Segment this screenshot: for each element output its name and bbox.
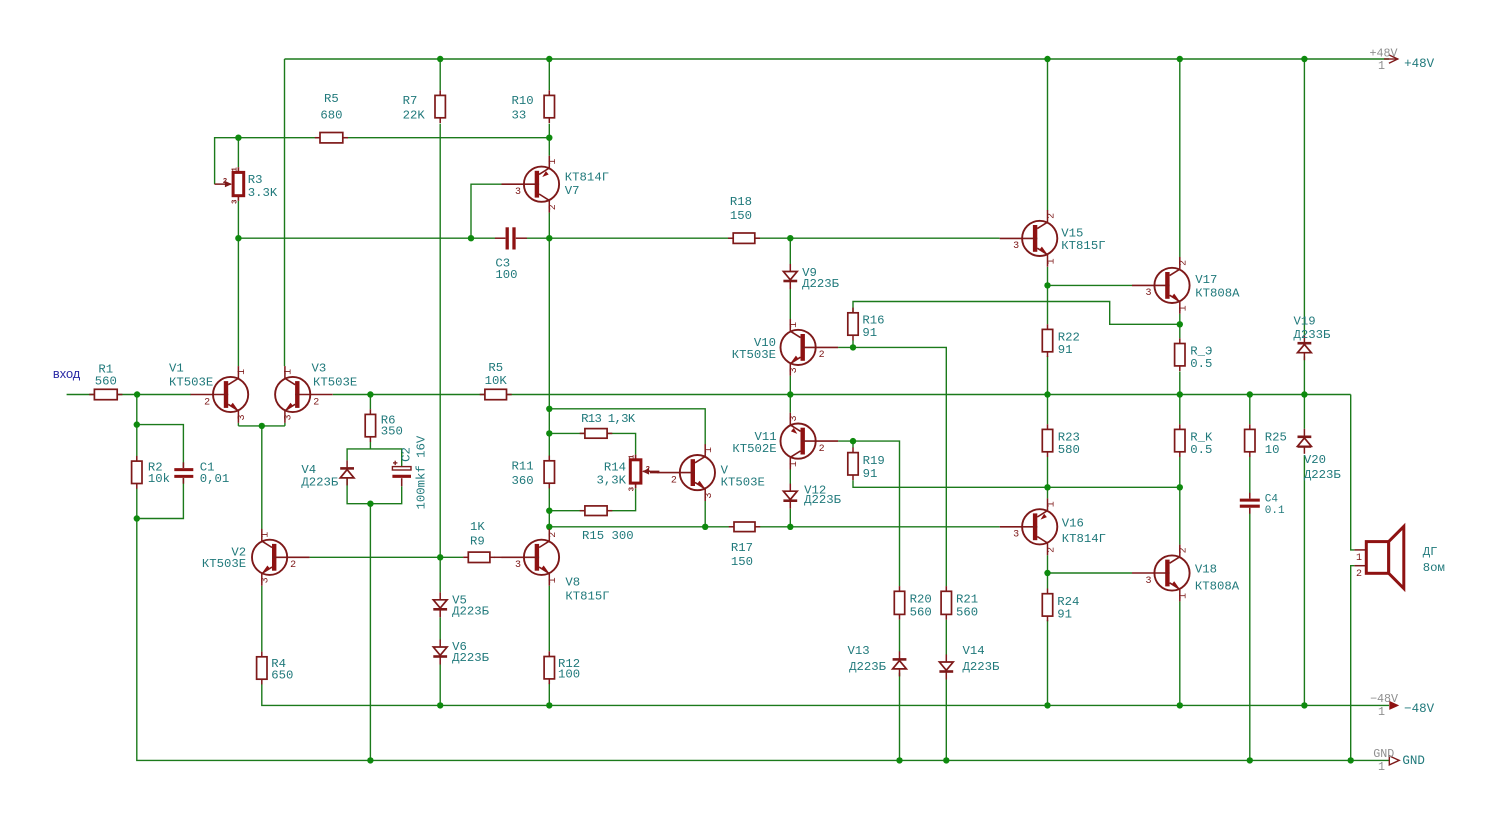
wire R14 wiper to V base	[650, 472, 659, 474]
svg-text:150: 150	[730, 209, 752, 223]
svg-text:1: 1	[1378, 59, 1385, 73]
wire R15 to R14 bottom	[608, 488, 636, 510]
svg-text:91: 91	[863, 467, 878, 481]
wire V13 column	[899, 620, 901, 652]
wire emitter join V1-V3	[238, 425, 285, 427]
junction	[546, 524, 552, 530]
svg-text:вход: вход	[53, 366, 81, 381]
svg-text:R21: R21	[956, 592, 978, 606]
junction	[943, 757, 949, 763]
wire R11 bottom to junctions	[548, 483, 550, 529]
svg-text:2: 2	[819, 350, 825, 361]
svg-text:2: 2	[819, 444, 825, 455]
svg-text:V16: V16	[1062, 517, 1084, 531]
diode V9 D223B	[783, 272, 797, 280]
svg-text:2: 2	[548, 204, 559, 210]
diode V20 D223B	[1298, 438, 1312, 446]
wire R12 bottom to -48V	[548, 683, 550, 706]
resistor R20	[899, 586, 901, 591]
transistor V1 KT503E	[213, 377, 248, 412]
junction	[702, 524, 708, 530]
junction	[1044, 391, 1050, 397]
svg-text:3: 3	[1145, 288, 1151, 299]
wire V7 collector	[548, 138, 550, 156]
svg-text:КТ808А: КТ808А	[1195, 580, 1240, 594]
svg-text:3: 3	[237, 414, 248, 420]
wire V16 collector pin	[1047, 487, 1049, 498]
wire row y409 to V pin1	[549, 409, 705, 445]
svg-text:22K: 22K	[403, 108, 426, 122]
svg-text:R18: R18	[730, 195, 752, 209]
junction	[1301, 56, 1307, 62]
wire V15 collector to rail	[1047, 59, 1049, 210]
junction	[1044, 570, 1050, 576]
wire R25 column	[1249, 395, 1251, 425]
diode V19 D233B	[1298, 344, 1312, 352]
port -48V	[1389, 701, 1399, 710]
svg-text:V8: V8	[565, 576, 580, 590]
resistor R_E	[1179, 338, 1181, 343]
svg-text:КТ503Е: КТ503Е	[313, 376, 357, 390]
wire GND rail	[137, 519, 1389, 761]
wire V14 column	[945, 620, 947, 655]
svg-text:V19: V19	[1294, 315, 1316, 329]
svg-text:R20: R20	[910, 592, 932, 606]
svg-text:1: 1	[629, 454, 637, 459]
junction	[468, 235, 474, 241]
transistor V17 KT808A	[1154, 268, 1189, 303]
svg-text:1: 1	[789, 461, 800, 467]
resistor R16	[852, 308, 854, 313]
svg-text:КТ814Г: КТ814Г	[1062, 532, 1106, 546]
wire R2 bottom to junction	[136, 488, 138, 519]
wire -48V rail	[262, 684, 1389, 706]
svg-text:КТ503Е: КТ503Е	[202, 557, 246, 571]
potentiometer R14	[635, 455, 637, 460]
svg-text:КТ808А: КТ808А	[1195, 287, 1240, 301]
wire V15 emitter to V17 base	[1048, 284, 1133, 286]
transistor V18 KT808A	[1154, 555, 1189, 590]
svg-text:Д223Б: Д223Б	[963, 660, 1001, 674]
svg-text:560: 560	[956, 606, 978, 620]
svg-text:ДГ: ДГ	[1423, 545, 1438, 559]
resistor R7	[439, 90, 441, 95]
wire main input line left	[67, 394, 191, 396]
wire R3 column down to V1 collector	[237, 238, 239, 366]
junction	[1177, 56, 1183, 62]
diode V12 D223B	[783, 491, 797, 499]
junction	[787, 235, 793, 241]
wire R7 column top	[439, 59, 441, 90]
resistor R12	[548, 651, 550, 656]
resistor R10	[548, 90, 550, 95]
junction	[1177, 391, 1183, 397]
wire y487 to V18 collector node	[1048, 486, 1180, 488]
resistor R13	[580, 432, 585, 434]
wire R6 column	[369, 395, 371, 410]
resistor R5 10K	[480, 394, 485, 396]
wire R3 column to C3 row	[237, 201, 239, 238]
resistor R24	[1047, 589, 1049, 594]
wire R19 column top	[852, 441, 854, 448]
junction	[134, 515, 140, 521]
svg-text:−48V: −48V	[1370, 692, 1398, 706]
svg-text:1: 1	[1179, 305, 1190, 311]
svg-text:8ом: 8ом	[1423, 561, 1445, 575]
svg-text:0,01: 0,01	[200, 472, 230, 486]
svg-text:2: 2	[204, 397, 210, 408]
svg-text:R3: R3	[248, 173, 263, 187]
junction	[1177, 484, 1183, 490]
wire R19 bottom row y487	[853, 480, 1048, 487]
svg-text:1: 1	[231, 167, 239, 172]
wire R17 row left	[549, 526, 734, 528]
wire R2 C1 input column	[136, 395, 138, 461]
svg-text:3: 3	[284, 414, 295, 420]
svg-text:350: 350	[381, 425, 403, 439]
svg-text:1: 1	[1046, 501, 1057, 507]
svg-text:560: 560	[910, 606, 932, 620]
svg-text:R11: R11	[512, 459, 534, 473]
capacitor C3	[506, 227, 509, 249]
svg-text:1: 1	[1356, 553, 1362, 564]
wire V2 emitter to R4	[261, 586, 263, 652]
svg-text:+48V: +48V	[1404, 57, 1435, 71]
svg-text:10K: 10K	[485, 374, 508, 388]
wire V17 emitter to R_E	[1179, 314, 1181, 339]
svg-text:3: 3	[515, 560, 521, 571]
diode V14 D223B	[939, 662, 953, 670]
junction	[546, 430, 552, 436]
junction	[134, 391, 140, 397]
svg-text:3: 3	[231, 199, 239, 204]
wire V16 emitter to V18 base row	[1048, 572, 1133, 574]
svg-text:680: 680	[320, 109, 342, 123]
resistor R22	[1047, 324, 1049, 329]
junction	[1247, 757, 1253, 763]
svg-text:10: 10	[1265, 443, 1280, 457]
wire main line right corner to speaker	[1351, 395, 1355, 550]
wire V1 emitter	[237, 423, 239, 426]
svg-text:КТ503Е: КТ503Е	[169, 376, 213, 390]
svg-text:Д223Б: Д223Б	[802, 277, 840, 291]
wire R_K column	[1179, 395, 1181, 425]
svg-text:V17: V17	[1195, 273, 1217, 287]
port +48V	[1384, 58, 1398, 60]
junction	[1301, 702, 1307, 708]
junction	[235, 135, 241, 141]
svg-text:GND: GND	[1373, 747, 1394, 761]
junction	[787, 524, 793, 530]
junction	[546, 702, 552, 708]
svg-text:1: 1	[548, 159, 559, 165]
transistor V8 KT815G	[524, 540, 559, 575]
junction	[546, 508, 552, 514]
svg-text:2: 2	[1179, 260, 1190, 266]
wire V8 emitter to R12	[548, 586, 550, 652]
junction	[787, 391, 793, 397]
wire V17 collector to rail	[1179, 59, 1181, 257]
resistor R2	[136, 456, 138, 461]
wire +48V top rail	[285, 58, 1390, 60]
junction	[1348, 757, 1354, 763]
svg-text:1: 1	[237, 369, 248, 375]
svg-text:2: 2	[313, 397, 319, 408]
junction	[437, 554, 443, 560]
wire R16 column junction	[852, 340, 854, 347]
svg-text:91: 91	[862, 326, 877, 340]
svg-text:1: 1	[1046, 258, 1057, 264]
svg-text:1: 1	[704, 447, 715, 453]
svg-text:−48V: −48V	[1404, 702, 1435, 716]
wire R25 to C4	[1249, 457, 1251, 498]
svg-text:R14: R14	[604, 461, 626, 475]
transistor V11 KT502E	[781, 424, 816, 459]
wire R13 to R14 top	[608, 433, 636, 454]
wire main line center	[333, 394, 1351, 396]
svg-text:C4: C4	[1265, 494, 1279, 506]
diode V5 D223B	[433, 600, 447, 608]
wire speaker pin2 to GND	[1351, 566, 1355, 761]
svg-text:91: 91	[1057, 608, 1072, 622]
svg-text:2: 2	[1179, 547, 1190, 553]
diode V6 D223B	[433, 647, 447, 655]
svg-text:КТ815Г: КТ815Г	[565, 589, 609, 603]
transistor V16 KT814G	[1022, 509, 1057, 544]
svg-text:V1: V1	[169, 362, 184, 376]
svg-text:3: 3	[789, 415, 800, 421]
svg-text:2: 2	[1046, 547, 1057, 553]
transistor V7 KT814G	[524, 167, 559, 202]
resistor R15	[580, 510, 585, 512]
wire V18 emitter to -48V	[1179, 601, 1181, 705]
junction	[1044, 702, 1050, 708]
resistor R17	[729, 526, 734, 528]
diode V13 D223B	[893, 661, 907, 669]
svg-text:0.1: 0.1	[1265, 505, 1285, 517]
svg-text:V18: V18	[1195, 563, 1217, 577]
resistor R19	[852, 447, 854, 452]
junction	[896, 757, 902, 763]
wire V19 column	[1303, 59, 1305, 335]
wire V7 emitter to C3 node	[548, 213, 550, 239]
wire V12 to R17 row	[789, 509, 791, 527]
svg-text:3: 3	[629, 486, 637, 491]
svg-text:91: 91	[1058, 343, 1073, 357]
svg-text:Д233Б: Д233Б	[1294, 328, 1332, 342]
junction	[437, 56, 443, 62]
wire row y433 R13	[549, 432, 584, 434]
wire V11 base row	[838, 441, 899, 586]
wire V20 column	[1303, 395, 1305, 429]
svg-text:V20: V20	[1304, 453, 1326, 467]
svg-text:КТ502Е: КТ502Е	[732, 442, 776, 456]
junction	[1177, 321, 1183, 327]
junction	[367, 501, 373, 507]
svg-text:R15 300: R15 300	[582, 529, 634, 543]
diode V4 D223B	[340, 470, 354, 478]
svg-text:R9: R9	[470, 534, 485, 548]
capacitor C4	[1240, 499, 1260, 502]
capacitor C1	[174, 468, 193, 471]
wire V4C2 node to GND rail	[369, 504, 371, 761]
svg-text:560: 560	[95, 374, 117, 388]
svg-text:3: 3	[515, 187, 521, 198]
wire C4 to GND	[1249, 508, 1251, 761]
wire R7 column down to base row	[439, 124, 441, 558]
transistor V2 KT503E	[252, 540, 287, 575]
wire R22 column	[1047, 285, 1049, 324]
junction	[546, 135, 552, 141]
wire R15 row	[549, 510, 584, 512]
svg-text:КТ814Г: КТ814Г	[565, 171, 609, 185]
svg-text:2: 2	[548, 532, 559, 538]
svg-text:Д223Б: Д223Б	[804, 493, 842, 507]
resistor R1	[89, 394, 94, 396]
wire C3-R18 row y238 right	[526, 237, 999, 239]
resistor R_K	[1179, 424, 1181, 429]
svg-text:КТ503Е: КТ503Е	[721, 476, 765, 490]
svg-text:R19: R19	[863, 454, 885, 468]
wire V3 emitter	[284, 423, 286, 426]
svg-text:R13 1,3K: R13 1,3K	[581, 412, 636, 426]
potentiometer R3	[237, 167, 239, 172]
svg-text:КТ815Г: КТ815Г	[1061, 239, 1105, 253]
svg-text:2: 2	[223, 178, 228, 186]
wire V2-V8 base row	[310, 556, 464, 558]
resistor R4	[261, 652, 263, 657]
svg-text:R5: R5	[324, 92, 339, 106]
junction	[1177, 702, 1183, 708]
svg-text:650: 650	[271, 668, 293, 682]
svg-text:2: 2	[671, 475, 677, 486]
wire R24 column	[1047, 573, 1049, 589]
resistor R18	[728, 237, 733, 239]
wire R6 to V4/C2 top	[347, 449, 402, 467]
svg-text:3: 3	[1013, 530, 1019, 541]
svg-text:GND: GND	[1402, 754, 1425, 768]
resistor R5 680	[315, 137, 320, 139]
svg-text:100: 100	[495, 268, 517, 282]
svg-text:2: 2	[646, 466, 651, 474]
junction	[546, 56, 552, 62]
svg-text:Д223Б: Д223Б	[452, 651, 490, 665]
wire R9 to V8 base pin	[494, 556, 503, 558]
wire C1 bottom corner	[137, 478, 184, 518]
junction	[546, 406, 552, 412]
svg-text:1: 1	[284, 369, 295, 375]
svg-text:33: 33	[512, 108, 527, 122]
resistor R6	[369, 409, 371, 414]
svg-text:2: 2	[290, 560, 296, 571]
transistor V15 KT815G	[1022, 221, 1057, 256]
wire V5 V6 column	[439, 557, 441, 592]
svg-text:2: 2	[1356, 569, 1362, 580]
junction	[546, 235, 552, 241]
svg-text:КТ503Е: КТ503Е	[732, 348, 776, 362]
junction	[1044, 282, 1050, 288]
svg-text:100mkf 16V: 100mkf 16V	[415, 435, 429, 509]
svg-text:V14: V14	[963, 644, 985, 658]
junction	[1044, 56, 1050, 62]
resistor R9	[463, 556, 468, 558]
wire R10 bottom junction	[548, 124, 550, 138]
junction	[850, 344, 856, 350]
transistor V KT503E	[680, 455, 715, 490]
wire R17 row right to V16 base	[755, 526, 1000, 528]
resistor R11	[548, 456, 550, 461]
junction	[367, 757, 373, 763]
wire V10 emitter to V11 collector	[789, 376, 791, 413]
wire feedback row y138	[215, 138, 550, 185]
wire V11 emitter to V12	[789, 470, 791, 485]
junction	[1247, 391, 1253, 397]
svg-text:2: 2	[1046, 213, 1057, 219]
svg-text:1: 1	[261, 532, 272, 538]
resistor R23	[1047, 424, 1049, 429]
wire C3-R18 row y238 left	[238, 237, 495, 239]
junction	[259, 423, 265, 429]
wire V2 collector column	[261, 426, 263, 529]
svg-text:1: 1	[548, 577, 559, 583]
svg-text:R10: R10	[512, 94, 534, 108]
svg-text:R17: R17	[731, 541, 753, 555]
junction	[1301, 391, 1307, 397]
junction	[367, 391, 373, 397]
svg-text:V7: V7	[565, 184, 580, 198]
wire V16 emitter junction	[1047, 555, 1049, 573]
wire V18 collector	[1179, 487, 1181, 544]
wire V4/C2 bottom loop	[347, 478, 402, 504]
junction	[134, 421, 140, 427]
svg-text:1: 1	[1179, 593, 1190, 599]
svg-text:Д223Б: Д223Б	[849, 660, 887, 674]
wire V emitter down to R17 row	[704, 501, 706, 527]
svg-text:580: 580	[1058, 443, 1080, 457]
wire V9 column	[789, 238, 791, 264]
junction	[1044, 484, 1050, 490]
wire R_E bottom	[1179, 372, 1181, 395]
svg-text:10k: 10k	[148, 472, 170, 486]
svg-text:150: 150	[731, 555, 753, 569]
junction	[235, 235, 241, 241]
svg-text:1: 1	[789, 322, 800, 328]
svg-text:Д223Б: Д223Б	[301, 476, 339, 490]
wire C1 top corner	[137, 425, 184, 468]
junction	[437, 702, 443, 708]
wire V7 base corner	[471, 184, 502, 238]
svg-text:1K: 1K	[470, 520, 485, 534]
svg-text:Д223Б: Д223Б	[1304, 468, 1342, 482]
svg-text:3: 3	[261, 577, 272, 583]
wire R23 column	[1047, 395, 1049, 425]
svg-text:3: 3	[704, 493, 715, 499]
svg-text:360: 360	[512, 474, 534, 488]
port GND	[1389, 756, 1399, 765]
transistor V3 KT503E	[275, 377, 310, 412]
svg-text:1: 1	[1378, 760, 1385, 774]
wire R20 top	[899, 585, 901, 587]
resistor R21	[945, 586, 947, 591]
wire V3 collector to top rail	[284, 59, 286, 366]
svg-text:3: 3	[789, 367, 800, 373]
wire R16 top to V17 emitter node	[853, 302, 1180, 325]
svg-text:Д223Б: Д223Б	[452, 605, 490, 619]
wire x549 column main to R11	[548, 238, 550, 460]
wire R10 column top	[548, 59, 550, 90]
svg-text:3: 3	[1013, 241, 1019, 252]
svg-text:3,3K: 3,3K	[596, 473, 626, 487]
